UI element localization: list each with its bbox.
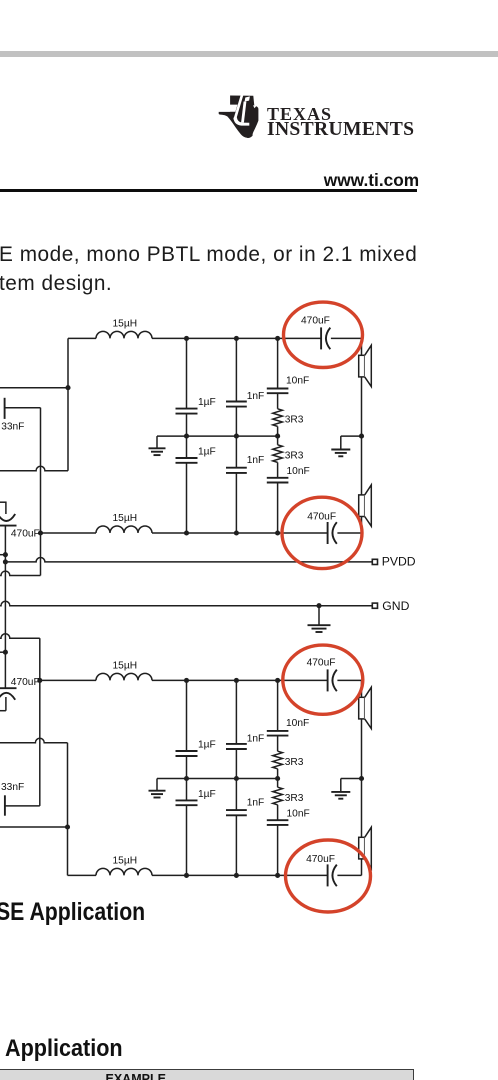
terminal PVDD [372, 559, 377, 564]
wire chA lower left [0, 466, 68, 470]
wire RA2 to CAf [277, 462, 279, 477]
wire chA down to cross [40, 533, 42, 576]
svg-text:1µF: 1µF [198, 397, 216, 408]
svg-text:15µH: 15µH [113, 318, 138, 329]
wire outputBN bottom [68, 874, 97, 876]
node speakerB mid [359, 776, 364, 781]
label LB2 15uH [113, 855, 138, 866]
node busA j2 [234, 434, 239, 439]
inductor LA1 15uH [96, 331, 152, 338]
capacitor C_A 33nF plate [4, 398, 6, 419]
svg-text:1nF: 1nF [247, 733, 265, 744]
label CAT 470uF [301, 316, 330, 327]
label CAB 470uF [307, 511, 336, 522]
speaker SPKA2 [359, 485, 372, 526]
svg-text:3R3: 3R3 [285, 793, 304, 804]
node bottomA j2 [234, 530, 239, 535]
wire RA1 to bus [277, 426, 279, 436]
TI logo block [0, 0, 498, 160]
wire chA 33nF vertical [40, 408, 42, 533]
label PVDD [382, 555, 416, 569]
node bottomA j1 [184, 530, 189, 535]
wire chB upper left [0, 634, 40, 638]
ground busB [149, 779, 166, 798]
node left rail A [3, 552, 8, 557]
wire RB2 to CBf [277, 805, 279, 820]
label CAL 470uF [11, 528, 40, 539]
svg-text:470uF: 470uF [306, 854, 335, 865]
capacitor CAb 1uF [176, 458, 198, 463]
wire 10nF branch topA [277, 338, 279, 388]
label CBa 1uF [198, 739, 216, 750]
wire 1uF branch botA [186, 463, 188, 533]
label LA2 15uH [113, 513, 138, 524]
node bottomB j2 [234, 873, 239, 878]
capacitor CAB 470uF [328, 522, 337, 544]
capacitor CBL 470uF curved plate [0, 693, 15, 700]
label CBT 470uF [307, 658, 336, 669]
wire bottomA to speaker [337, 532, 361, 534]
resistor RB2 3R3 [273, 787, 283, 805]
capacitor CBb 1uF [176, 800, 198, 805]
inductor LB2 15uH [96, 868, 152, 875]
wire 10nF branch topB [277, 680, 279, 731]
wire CBf bot [277, 825, 279, 876]
wire 1nF branch botB [235, 815, 237, 875]
capacitor CAf 10nF [267, 478, 289, 483]
label CAa 1uF [198, 397, 216, 408]
node topA j3 [275, 336, 280, 341]
label CBB 470uF [306, 854, 335, 865]
node chB top wire [37, 678, 42, 683]
node chB left [65, 824, 70, 829]
label CAb 1uF [198, 446, 216, 457]
svg-text:1µF: 1µF [198, 739, 216, 750]
capacitor C_B 33nF plate [4, 795, 6, 815]
svg-text:3R3: 3R3 [285, 415, 304, 426]
ground speakerA [331, 436, 350, 456]
inductor LB1 15uH [96, 673, 152, 680]
highlight circle CBB [286, 840, 371, 912]
wire C_B 33nF to node [5, 805, 40, 807]
resistor RA1 3R3 [273, 409, 283, 427]
heading: SE Application [0, 898, 145, 927]
ground GND line [308, 606, 331, 632]
label CBb 1uF [198, 789, 216, 800]
wire outputBP top [40, 679, 96, 681]
label CBc 1nF [247, 733, 265, 744]
capacitor CBL 470uF straight plate [0, 687, 17, 689]
wire CBL bottom lead [5, 697, 7, 711]
wire PVDD line [5, 558, 372, 562]
svg-text:33nF: 33nF [1, 782, 24, 793]
wire CBe to RB1 [277, 736, 279, 752]
capacitor CAL 470uF straight plate [0, 525, 17, 527]
wire speakerA gnd [341, 435, 362, 437]
node bottomB j1 [184, 873, 189, 878]
svg-text:470uF: 470uF [307, 511, 336, 522]
node topB j3 [275, 678, 280, 683]
svg-text:15µH: 15µH [113, 513, 138, 524]
label LA1 15uH [113, 318, 138, 329]
www.ti.com [324, 170, 419, 191]
svg-text:1nF: 1nF [247, 798, 265, 809]
wire speakerB bottom lead [361, 859, 363, 876]
svg-text:3R3: 3R3 [285, 451, 304, 462]
label RB1 3R3 [285, 757, 304, 768]
wire CAL 470uF top lead [5, 502, 7, 515]
wire GND line [0, 601, 372, 605]
wire 1nF branch midA [235, 407, 237, 468]
wire speakerB top lead [361, 680, 363, 697]
node topB j2 [234, 678, 239, 683]
wire outputAN bottom [41, 532, 97, 534]
table header [0, 1069, 414, 1080]
svg-text:470uF: 470uF [301, 316, 330, 327]
wire 1uF branch topA [186, 338, 188, 408]
svg-text:PVDD: PVDD [382, 555, 416, 569]
wire chB 33nF vertical [39, 680, 41, 806]
svg-text:1µF: 1µF [198, 446, 216, 457]
node GND [316, 603, 321, 608]
wire bottomB to speaker [337, 874, 361, 876]
node busB j1 [184, 776, 189, 781]
svg-text:1µF: 1µF [198, 789, 216, 800]
wire CAe to RA1 [277, 393, 279, 409]
resistor RB1 3R3 [273, 751, 283, 769]
wire bottomA mid [152, 532, 328, 534]
resistor RA2 3R3 [273, 445, 283, 463]
heading: Application [5, 1035, 123, 1063]
wire 1nF branch topB [235, 680, 237, 744]
label RA1 3R3 [285, 415, 304, 426]
wire chB left vertical [67, 743, 69, 876]
wire speakerA bottom lead [361, 517, 363, 534]
top grey separator bar [0, 51, 498, 58]
wire speakerA top lead [361, 338, 363, 355]
label CAc 1nF [247, 391, 265, 402]
inductor LA2 15uH [96, 526, 152, 533]
wire chA from OUTA+ [0, 387, 68, 389]
TI logo bug [219, 96, 259, 139]
wire 1uF branch midA [186, 414, 188, 458]
speaker SPKA1 [359, 345, 372, 386]
node topA j2 [234, 336, 239, 341]
highlight circle CAT [284, 302, 363, 367]
wire chA exit left [0, 571, 41, 575]
node busB j2 [234, 776, 239, 781]
svg-text:470uF: 470uF [11, 677, 40, 688]
label RB2 3R3 [285, 793, 304, 804]
node busA j3 [275, 434, 280, 439]
label CBf 10nF [287, 808, 310, 819]
wire RB1 to bus [277, 769, 279, 779]
wire C_A 33nF to node [5, 407, 41, 409]
wire topA to speaker [331, 337, 362, 339]
label CAe 10nF [286, 376, 309, 387]
speaker SPKB1 [359, 687, 372, 728]
node PVDD tap [3, 559, 8, 564]
svg-text:10nF: 10nF [286, 718, 309, 729]
node left rail B [3, 650, 8, 655]
wire 1uF branch topB [186, 680, 188, 751]
wire speakerB gnd [341, 778, 362, 780]
svg-text:10nF: 10nF [287, 466, 310, 477]
capacitor CAa 1uF [176, 409, 198, 414]
svg-text:1nF: 1nF [247, 391, 265, 402]
capacitor CAd 1nF [226, 468, 247, 473]
label C_B 33nF [1, 782, 24, 793]
svg-text:470uF: 470uF [11, 528, 40, 539]
wire CBL exit left [0, 710, 6, 712]
label GND [382, 599, 409, 613]
capacitor CAc 1nF [226, 402, 247, 407]
wire topA mid [152, 337, 321, 339]
svg-text:15µH: 15µH [113, 855, 138, 866]
wire busA to RA2 [277, 436, 279, 445]
wire 1nF branch midB [235, 749, 237, 810]
wire 1nF branch botA [235, 473, 237, 533]
wire 1nF branch topA [235, 338, 237, 401]
wire speakerA mid [361, 377, 363, 495]
capacitor CAe 10nF [267, 389, 289, 394]
wire CAL 470uF top feed [0, 501, 6, 503]
wire bottomB mid [152, 874, 328, 876]
capacitor CAT 470uF [321, 327, 330, 349]
wire outputAP top [68, 337, 96, 339]
highlight circle CAB [282, 497, 362, 568]
wire topB to speaker [337, 679, 361, 681]
wire mid busA [157, 435, 278, 437]
node bottomB j3 [275, 873, 280, 878]
body paragraph (cropped) [0, 243, 417, 267]
wire busB to RB2 [277, 779, 279, 788]
label CBL 470uF [11, 677, 40, 688]
wire stub left B [0, 651, 5, 653]
label CBd 1nF [247, 798, 265, 809]
capacitor CBf 10nF [267, 820, 289, 825]
highlight circle CBT [283, 645, 363, 714]
wire mid busB [157, 778, 278, 780]
capacitor CBB 470uF [328, 864, 337, 886]
wire chB lower feed [0, 826, 68, 828]
svg-text:10nF: 10nF [287, 808, 310, 819]
label CBe 10nF [286, 718, 309, 729]
node topB j1 [184, 678, 189, 683]
svg-text:10nF: 10nF [286, 376, 309, 387]
capacitor CBd 1nF [226, 810, 247, 815]
wire left rail [4, 526, 6, 689]
ground speakerB [331, 779, 350, 799]
speaker SPKB2 [359, 827, 372, 868]
capacitor CBc 1nF [226, 744, 247, 749]
wire speakerB mid [361, 719, 363, 837]
svg-text:15µH: 15µH [113, 660, 138, 671]
wire CAf bot [277, 483, 279, 534]
wire stub left A [0, 554, 5, 556]
ground busA [149, 436, 166, 455]
wire chB from OUTB [0, 738, 68, 742]
wire chA left vertical [67, 338, 69, 470]
svg-text:1nF: 1nF [247, 455, 265, 466]
node busB j3 [275, 776, 280, 781]
wire 1uF branch botB [186, 805, 188, 875]
capacitor CAL 470uF curved plate [0, 514, 15, 521]
capacitor CBa 1uF [176, 751, 198, 756]
label C_A 33nF [1, 422, 24, 433]
wire topB mid [152, 679, 328, 681]
node chA bottom wire [38, 530, 43, 535]
node busA j1 [184, 434, 189, 439]
wire 1uF branch midB [186, 756, 188, 800]
svg-text:33nF: 33nF [1, 422, 24, 433]
svg-text:3R3: 3R3 [285, 757, 304, 768]
svg-text:GND: GND [382, 599, 409, 613]
node bottomA j3 [275, 530, 280, 535]
label CAd 1nF [247, 455, 265, 466]
node speakerA mid [359, 434, 364, 439]
label CAf 10nF [287, 466, 310, 477]
capacitor CBe 10nF [267, 731, 289, 736]
node chA left [65, 385, 70, 390]
header rule [0, 189, 417, 192]
svg-text:470uF: 470uF [307, 658, 336, 669]
capacitor CBT 470uF [328, 669, 337, 691]
wire chB left vertical upper [39, 638, 41, 680]
node topA j1 [184, 336, 189, 341]
terminal GND [372, 603, 377, 608]
label RA2 3R3 [285, 451, 304, 462]
label LB1 15uH [113, 660, 138, 671]
